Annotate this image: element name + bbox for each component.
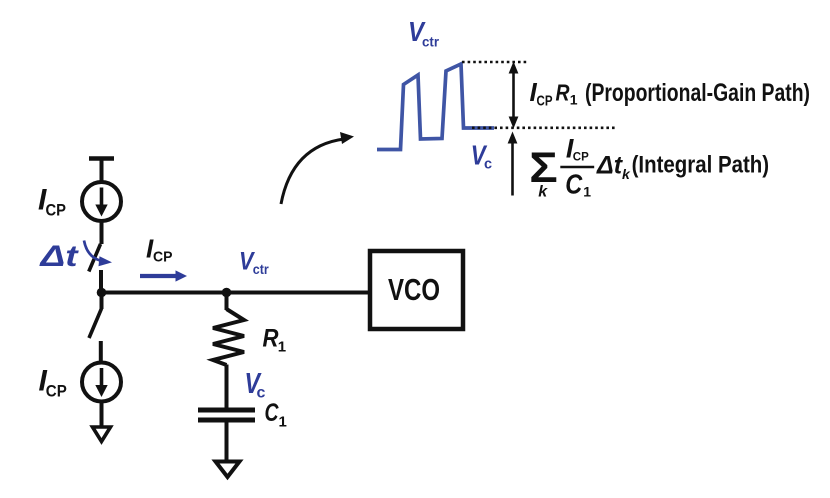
svg-text:c: c — [484, 156, 492, 172]
node A junction dot — [97, 288, 107, 298]
resistor R1 — [213, 309, 244, 365]
wire node A to switch S2 — [100, 293, 104, 309]
svg-text:(Integral Path): (Integral Path) — [632, 152, 770, 179]
svg-text:CP: CP — [573, 150, 589, 164]
current direction arrow I_CP (blue) — [140, 270, 187, 281]
wire capacitor C1 to ground — [225, 422, 229, 462]
label V_ctr (blue, waveform title) — [408, 16, 440, 50]
svg-text:C: C — [565, 169, 583, 200]
callout curved arrow (circuit to waveform) — [281, 132, 354, 204]
dotted reference line (peak level) — [462, 61, 527, 64]
supply rail (top T bar) — [89, 156, 114, 161]
svg-text:R: R — [263, 325, 279, 353]
svg-text:ctr: ctr — [253, 261, 269, 277]
current source I1 (top, I_CP) — [82, 182, 121, 221]
dimension arrow (integral path, up arrow) — [508, 132, 518, 196]
wire node B to resistor R1 — [225, 293, 229, 311]
dotted reference line (V_c level) — [472, 127, 616, 130]
svg-text:CP: CP — [153, 249, 173, 266]
svg-text:1: 1 — [583, 184, 591, 200]
wire switch S1 to node A — [99, 270, 103, 293]
svg-text:Δt: Δt — [39, 240, 80, 273]
svg-text:CP: CP — [46, 201, 67, 220]
wire resistor R1 to capacitor C1 (net V_c) — [225, 365, 229, 409]
label C1 — [265, 399, 287, 431]
svg-text:R: R — [556, 80, 570, 106]
label sum over k of I_CP/C1 times Delta-t_k (Integral Path) — [529, 134, 769, 201]
wire switch S2 to current source I2 — [99, 341, 103, 363]
svg-text:CP: CP — [537, 93, 553, 110]
svg-text:CP: CP — [46, 382, 67, 401]
svg-text:1: 1 — [278, 339, 286, 356]
wire rail to current source I1 — [100, 159, 104, 183]
dimension arrow (proportional gain, double headed) — [509, 62, 519, 129]
label V_ctr (blue, at node B) — [239, 247, 269, 277]
label V_c (blue, waveform settled level) — [471, 139, 492, 172]
current source I2 (bottom, I_CP) — [82, 363, 121, 402]
switch S1 actuation arrow (blue) — [84, 241, 112, 267]
svg-text:(Proportional-Gain Path): (Proportional-Gain Path) — [585, 79, 810, 107]
svg-text:C: C — [265, 399, 280, 427]
svg-text:1: 1 — [279, 414, 287, 431]
label R1 — [263, 325, 287, 356]
label V_c (blue, net between R1 and C1) — [245, 368, 266, 402]
wire current source I1 to switch S1 — [100, 221, 104, 244]
label I_CP R1 (Proportional-Gain Path) — [530, 77, 811, 110]
ground (below current source I2) — [93, 427, 111, 442]
wire node A to VCO input (net V_ctr) — [102, 291, 371, 295]
switch S1 (blade) — [89, 244, 101, 272]
svg-text:k: k — [622, 166, 631, 182]
svg-text:k: k — [538, 184, 548, 201]
ground (below capacitor C1) — [216, 462, 240, 478]
label I_CP (bottom current source) — [39, 365, 67, 401]
label I_CP (current direction) — [146, 234, 173, 266]
svg-text:VCO: VCO — [388, 272, 440, 307]
svg-text:1: 1 — [570, 92, 578, 108]
label I_CP (top current source) — [38, 183, 66, 219]
svg-text:Δt: Δt — [596, 152, 624, 180]
VCO block U1 — [370, 251, 463, 329]
switch S2 (blade) — [89, 309, 102, 339]
waveform V_ctr (blue control voltage trace) — [377, 64, 494, 150]
capacitor C1 — [198, 410, 255, 420]
svg-text:ctr: ctr — [422, 34, 440, 50]
wire current source I2 to ground — [100, 402, 104, 428]
node B junction dot (V_ctr filter tap) — [222, 288, 232, 298]
